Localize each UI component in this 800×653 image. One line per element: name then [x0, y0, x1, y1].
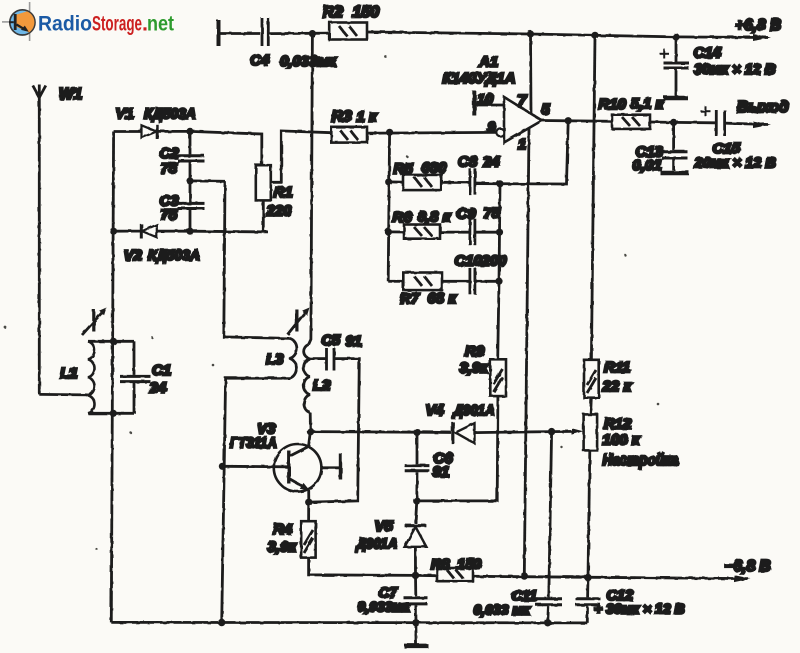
-6.8V rail: [473, 576, 748, 578]
svg-text:L3: L3: [266, 351, 284, 368]
svg-text:Storage: Storage: [92, 12, 142, 36]
wire R7 to C10: [442, 280, 469, 283]
svg-text:ГТ311А: ГТ311А: [230, 435, 277, 452]
svg-text:С5: С5: [322, 333, 341, 349]
svg-text:Radio: Radio: [38, 12, 92, 36]
node bottom wire left: [218, 619, 225, 626]
inductor L1: [88, 341, 94, 413]
transistor V3 ГТ311А: [274, 444, 322, 492]
L1 core bar and arrow: [92, 310, 95, 332]
capacitor C10 200: [468, 268, 471, 294]
L1 top lead: [88, 340, 134, 343]
svg-text:R9: R9: [465, 343, 485, 360]
output node: [565, 117, 572, 124]
feedback wire to C8: [475, 121, 568, 184]
svg-text:5,1 к: 5,1 к: [631, 96, 665, 113]
svg-text:Д901А: Д901А: [355, 536, 398, 553]
capacitor C4: [261, 18, 264, 46]
capacitor C2: [189, 131, 192, 154]
svg-text:1: 1: [518, 137, 526, 153]
resistor R3 1к: [331, 127, 367, 143]
svg-text:200: 200: [481, 253, 508, 270]
svg-text:С4: С4: [250, 52, 270, 69]
svg-text:+6,8 В: +6,8 В: [735, 17, 781, 34]
output arrow Выход: [726, 123, 768, 124]
speckles: [4, 55, 660, 550]
antenna W1: [38, 85, 41, 98]
L1 bottom lead: [88, 412, 134, 415]
svg-text:К140УД1А: К140УД1А: [443, 70, 516, 87]
resistor R6 6,8к: [388, 230, 404, 233]
node R12/rail: [584, 574, 591, 581]
R12 bottom to rail: [588, 450, 590, 577]
node R10/C13/C15: [670, 119, 677, 126]
svg-text:1 к: 1 к: [357, 109, 379, 126]
svg-text:68 к: 68 к: [428, 290, 458, 307]
wire V2 node to R1 bottom: [190, 230, 268, 233]
capacitor C15: [715, 110, 718, 136]
capacitor C12: [586, 578, 589, 598]
svg-text:R2: R2: [323, 4, 344, 21]
wire V1 node to R1: [190, 131, 262, 165]
wire R6 to C9: [440, 231, 469, 234]
svg-text:5: 5: [542, 102, 551, 118]
svg-text:Настройка: Настройка: [603, 452, 679, 469]
resistor R9 3,9к: [498, 281, 499, 359]
svg-text:R7: R7: [400, 291, 420, 308]
L3 core bar and arrow: [295, 310, 298, 332]
svg-text:R5: R5: [394, 161, 414, 178]
svg-text:3,9к: 3,9к: [460, 360, 490, 377]
capacitor C3: [189, 181, 192, 202]
capacitor C14: [675, 37, 678, 62]
svg-text:Выход: Выход: [737, 99, 789, 116]
right ladder column: [476, 183, 500, 281]
wire antenna to L1 tap: [39, 393, 88, 396]
svg-text:С8: С8: [458, 154, 478, 171]
wire: [650, 121, 674, 124]
resistor R11 22к: [584, 360, 599, 398]
resistor R4 3,9к: [307, 502, 310, 521]
wire R5 to C8: [441, 181, 468, 184]
inductor L3: [290, 338, 297, 378]
svg-text:А1: А1: [478, 54, 498, 71]
svg-text:22 к: 22 к: [602, 378, 633, 395]
wire C6 node down to V5: [416, 501, 417, 524]
output wire pin 5: [542, 119, 612, 123]
diode V1 КД503А: [142, 125, 157, 137]
svg-text:0,033 мк: 0,033 мк: [474, 602, 531, 618]
column C4 node down to L2: [309, 34, 313, 345]
base wire: [222, 465, 288, 468]
svg-text:V1: V1: [116, 106, 134, 123]
wire C5 down to emitter: [309, 359, 359, 503]
chassis bar at C7: [404, 644, 428, 649]
wire: [220, 32, 260, 35]
svg-text:24: 24: [149, 380, 167, 397]
chassis bar at C13: [661, 171, 690, 176]
svg-text:24: 24: [482, 154, 500, 171]
L2 tap wire to C5: [310, 357, 326, 360]
resistor R8 150: [437, 568, 473, 581]
R9 bottom wire to C6 node: [419, 396, 498, 501]
bottom common wire: [111, 621, 587, 624]
wire R4 to V5 node: [309, 558, 416, 576]
base node: [219, 463, 226, 470]
diode V4 Д901А: [417, 431, 451, 434]
wire C2C3 node down to L3: [224, 181, 290, 338]
wire: [674, 121, 715, 124]
svg-text:R6: R6: [393, 209, 413, 226]
svg-text:L1: L1: [60, 365, 78, 382]
diode V2 КД503А: [114, 230, 142, 233]
wiper arrow into R12: [552, 430, 577, 433]
svg-text:91: 91: [346, 334, 362, 350]
capacitor C1 24: [133, 341, 136, 375]
resistor ladder column: [388, 132, 389, 281]
svg-text:V5: V5: [375, 518, 394, 535]
L3 bottom lead to base column: [222, 378, 290, 622]
svg-text:V2: V2: [124, 247, 143, 264]
node C4/R2: [309, 30, 316, 37]
node V4/C6/collector: [413, 429, 420, 436]
pin 10 wire: [477, 104, 505, 107]
+6.8V rail: [531, 34, 769, 38]
node pin1/rail: [521, 572, 528, 579]
wire antenna down: [38, 98, 41, 395]
screen electrode: [321, 466, 339, 469]
pin10 chassis bar: [472, 91, 476, 116]
node C3/V2: [186, 228, 193, 235]
wire wiper node down to C11: [549, 432, 552, 598]
svg-text:С15: С15: [713, 140, 741, 157]
svg-text:0,033мк: 0,033мк: [280, 53, 338, 70]
left column wire: [111, 132, 113, 623]
svg-text:0,033мк: 0,033мк: [358, 599, 411, 615]
chassis bar at C4: [217, 20, 221, 46]
svg-text:L2: L2: [313, 377, 331, 394]
svg-text:6,8 к: 6,8 к: [418, 209, 452, 226]
resistor R5 680: [389, 180, 403, 183]
pin 9 circle: [496, 128, 504, 136]
capacitor C11: [536, 597, 563, 600]
svg-text:150: 150: [457, 557, 481, 573]
svg-text:20мк × 12 В: 20мк × 12 В: [694, 156, 776, 172]
svg-text:+ 30мк × 12 В: + 30мк × 12 В: [594, 601, 685, 617]
node L1 bottom: [110, 410, 117, 417]
svg-text:С1: С1: [152, 362, 171, 379]
capacitor C13: [672, 122, 675, 150]
resistor R2: [329, 23, 367, 40]
svg-text:100 к: 100 к: [603, 432, 641, 449]
svg-text:−6,8 В: −6,8 В: [725, 558, 771, 575]
svg-text:С9: С9: [457, 206, 477, 223]
svg-text:С10: С10: [455, 253, 483, 270]
svg-text:75: 75: [161, 160, 178, 177]
link R11 to R12: [589, 398, 593, 415]
node L1 top: [110, 338, 117, 345]
capacitor C5 91: [325, 348, 328, 371]
node collector: [307, 428, 314, 435]
pin 7 wire: [529, 34, 532, 114]
resistor R10: [612, 115, 650, 129]
wire: [270, 32, 330, 35]
node pin7/rail: [527, 30, 534, 37]
capacitor C7: [414, 575, 417, 596]
op-amp U1 A1 К140УД1А: [504, 97, 542, 143]
node C2/C3: [186, 177, 193, 184]
node rail/R11: [591, 32, 598, 39]
svg-text:R4: R4: [273, 521, 293, 538]
node V2 left: [110, 228, 117, 235]
wire R3 to pin 9: [367, 131, 496, 135]
svg-text:net: net: [147, 12, 174, 36]
svg-text:680: 680: [422, 160, 448, 177]
diode V5 Д901А: [405, 524, 427, 527]
potentiometer R12 100к: [584, 414, 598, 450]
resistor R7 68к: [388, 280, 403, 283]
svg-text:V4: V4: [426, 402, 445, 419]
column rail to R11: [591, 35, 595, 360]
chassis bar at C14: [664, 96, 689, 101]
emitter node: [305, 499, 312, 506]
R1 tap wire to R3: [271, 131, 332, 182]
svg-text:R8: R8: [431, 557, 450, 573]
logo RadioStorage.net: [2, 2, 174, 41]
svg-text:220: 220: [266, 203, 293, 220]
capacitor C9 75: [468, 219, 471, 246]
pin 1 wire down to -6.8 rail: [524, 128, 529, 576]
svg-text:3,9к: 3,9к: [268, 539, 298, 556]
svg-text:КД503А: КД503А: [148, 247, 200, 264]
wire R2 to rail: [367, 32, 531, 34]
svg-text:150: 150: [353, 4, 380, 21]
svg-text:W1: W1: [59, 86, 82, 103]
svg-text:91: 91: [433, 464, 450, 481]
svg-text:R10: R10: [599, 96, 627, 113]
resistor R1 220: [256, 165, 271, 200]
svg-text:30мк × 12 В: 30мк × 12 В: [694, 62, 775, 78]
svg-text:R11: R11: [604, 359, 630, 376]
svg-text:R3: R3: [332, 109, 353, 126]
node rail/C14: [672, 33, 679, 40]
svg-text:0,01: 0,01: [633, 157, 662, 174]
svg-text:7: 7: [518, 93, 528, 110]
node wiper: [548, 428, 555, 435]
wire collector to V4: [311, 430, 416, 433]
svg-text:R12: R12: [604, 416, 632, 433]
svg-text:С14: С14: [694, 45, 722, 62]
svg-text:10: 10: [477, 92, 493, 108]
wire node to L3 column: [190, 179, 225, 182]
node V5/R4/R8/C7: [412, 572, 419, 579]
svg-text:R1: R1: [274, 184, 293, 201]
svg-text:КД503А: КД503А: [144, 106, 196, 123]
svg-text:75: 75: [161, 207, 178, 224]
node V1: [186, 128, 193, 135]
capacitor C6 91: [416, 432, 419, 464]
inductor L2: [304, 345, 311, 413]
node C8/feedback: [496, 180, 503, 187]
wire to V1: [114, 130, 141, 133]
wire V5 node to R8: [416, 574, 438, 577]
node C6 bottom: [413, 497, 420, 504]
capacitor C8 24: [468, 168, 471, 194]
svg-text:Д901А: Д901А: [452, 402, 495, 419]
